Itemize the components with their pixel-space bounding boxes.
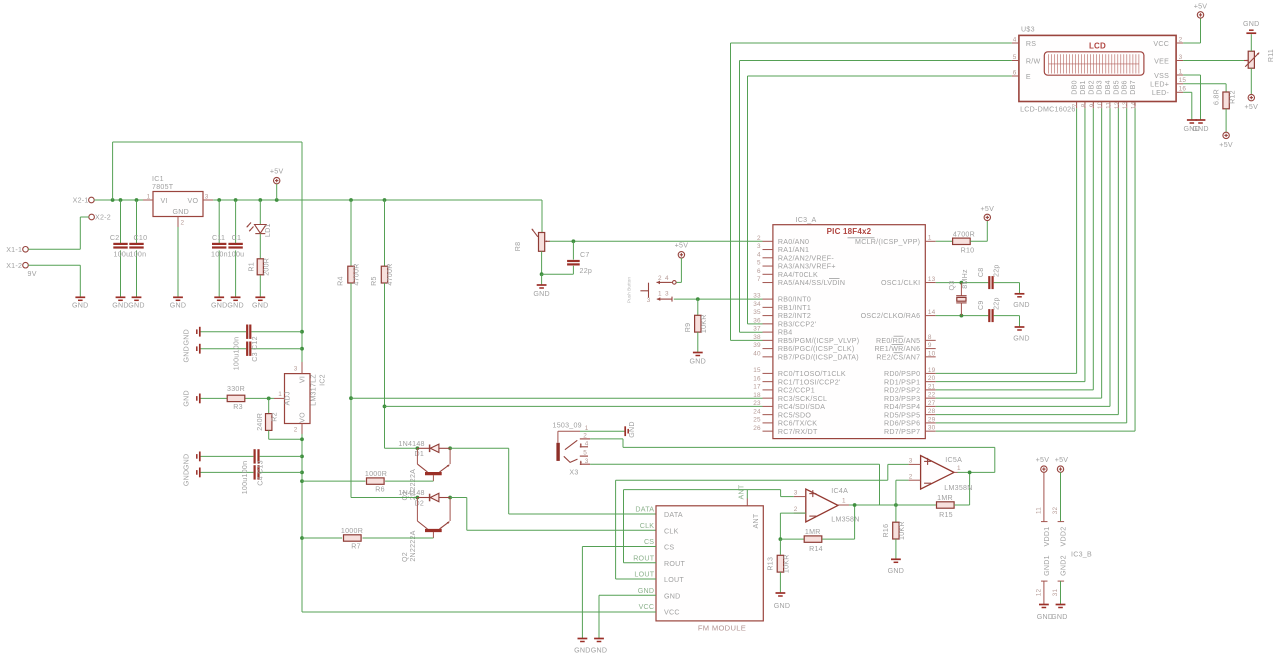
wire R8 wiper to RA0 bbox=[550, 239, 763, 243]
svg-text:11: 11 bbox=[1106, 102, 1113, 109]
svg-text:3: 3 bbox=[794, 490, 798, 497]
regulator IC1 7805T bbox=[143, 175, 213, 227]
wire C13 row bbox=[200, 471, 302, 473]
svg-text:RD1/PSP1: RD1/PSP1 bbox=[884, 378, 920, 386]
svg-text:RC6/TX/CK: RC6/TX/CK bbox=[778, 420, 817, 428]
svg-text:IC4A: IC4A bbox=[831, 487, 848, 495]
svg-text:19: 19 bbox=[928, 367, 936, 374]
wire LOUT to IC5A+ bbox=[616, 464, 909, 579]
svg-text:R12: R12 bbox=[1228, 90, 1236, 104]
svg-text:IC5A: IC5A bbox=[945, 456, 962, 464]
svg-text:7: 7 bbox=[757, 276, 761, 283]
svg-text:R2: R2 bbox=[270, 412, 278, 422]
svg-text:VI: VI bbox=[299, 376, 307, 383]
svg-text:RA5/AN4/SS/LVDIN: RA5/AN4/SS/LVDIN bbox=[778, 279, 845, 287]
svg-text:RE0/RD/AN5: RE0/RD/AN5 bbox=[876, 337, 920, 345]
svg-text:C11: C11 bbox=[212, 234, 225, 242]
wire jack pin2 to IC5A out bbox=[590, 439, 995, 473]
wire OSC1 row bbox=[936, 281, 989, 285]
svg-text:1: 1 bbox=[1179, 68, 1183, 75]
wire IC4A out row bbox=[849, 503, 937, 507]
svg-text:LCD-DMC16026: LCD-DMC16026 bbox=[1020, 105, 1075, 113]
svg-text:R15: R15 bbox=[939, 511, 953, 519]
wire R9 top bbox=[697, 299, 699, 315]
svg-text:RA0/AN0: RA0/AN0 bbox=[778, 238, 809, 246]
svg-text:RB7/PGD/(ICSP_DATA): RB7/PGD/(ICSP_DATA) bbox=[778, 353, 859, 361]
svg-text:DB2: DB2 bbox=[1087, 80, 1095, 95]
svg-text:1MR: 1MR bbox=[805, 528, 821, 536]
svg-text:RD6/PSP6: RD6/PSP6 bbox=[884, 420, 920, 428]
svg-text:RB4: RB4 bbox=[778, 329, 793, 337]
wire R3 row bbox=[200, 397, 274, 401]
svg-text:1N4148: 1N4148 bbox=[398, 440, 424, 448]
wire R8 bottom bbox=[540, 251, 544, 276]
svg-text:IC2: IC2 bbox=[319, 374, 327, 386]
svg-text:100n: 100n bbox=[130, 250, 147, 258]
svg-text:GND: GND bbox=[638, 587, 655, 595]
svg-text:DB6: DB6 bbox=[1121, 80, 1129, 95]
svg-text:10KR: 10KR bbox=[700, 314, 708, 333]
LCD module U$3 bbox=[1012, 25, 1186, 113]
svg-text:VCC: VCC bbox=[664, 609, 680, 617]
svg-text:10: 10 bbox=[928, 350, 936, 357]
svg-text:+5V: +5V bbox=[675, 242, 689, 250]
capacitor C12 100n bbox=[247, 342, 250, 356]
svg-text:2: 2 bbox=[658, 275, 662, 282]
svg-text:+5V: +5V bbox=[1245, 103, 1259, 111]
svg-text:ROUT: ROUT bbox=[664, 560, 686, 568]
svg-text:GND: GND bbox=[1013, 334, 1030, 342]
svg-text:17: 17 bbox=[753, 384, 761, 391]
svg-text:GND: GND bbox=[183, 454, 191, 471]
transistor Q1 2N2222A bbox=[401, 448, 450, 500]
op-amp IC4A LM358N bbox=[794, 487, 860, 524]
svg-text:VI: VI bbox=[161, 197, 168, 205]
wire LCD VSS to ground bbox=[1183, 75, 1200, 120]
ground C8 bbox=[1013, 294, 1030, 309]
svg-text:GND: GND bbox=[533, 290, 550, 298]
wire FM GND to ground bbox=[599, 595, 656, 638]
wire C10 stem bbox=[136, 200, 138, 297]
svg-text:1MR: 1MR bbox=[937, 494, 953, 502]
transistor Q2 2N2222A bbox=[401, 498, 450, 562]
connector pad X2-1 bbox=[73, 197, 95, 205]
svg-text:ANT: ANT bbox=[752, 513, 760, 528]
wire R16 to ground bbox=[895, 539, 897, 559]
ground FM bbox=[591, 639, 608, 655]
svg-text:Q2: Q2 bbox=[401, 552, 409, 562]
capacitor C2 100u bbox=[110, 234, 130, 258]
wire rail to R8 bbox=[541, 200, 543, 232]
resistor R16 10KR bbox=[882, 521, 906, 540]
svg-text:GND2: GND2 bbox=[1060, 555, 1068, 576]
svg-text:RC3/SCK/SCL: RC3/SCK/SCL bbox=[778, 395, 827, 403]
svg-text:VO: VO bbox=[188, 197, 199, 205]
ground C3 bbox=[183, 327, 200, 346]
svg-text:33: 33 bbox=[753, 293, 761, 300]
pin GND1 12 bbox=[1035, 555, 1051, 604]
svg-text:Q3: Q3 bbox=[948, 281, 956, 291]
svg-text:R10: R10 bbox=[961, 247, 975, 255]
svg-text:1: 1 bbox=[658, 291, 662, 298]
svg-text:9: 9 bbox=[928, 342, 932, 349]
svg-text:GND: GND bbox=[664, 592, 681, 600]
svg-text:1: 1 bbox=[278, 391, 282, 398]
regulator IC2 LM317LZ bbox=[274, 362, 327, 434]
wire DB7 net bbox=[936, 108, 1135, 431]
ground R3 bbox=[183, 390, 200, 407]
wire R11 top to gnd bbox=[1250, 34, 1252, 51]
svg-text:ANT: ANT bbox=[738, 484, 746, 499]
svg-text:4700R: 4700R bbox=[953, 230, 975, 238]
wire LD1 to R1 bbox=[259, 234, 261, 259]
wire C1 stem bbox=[235, 200, 237, 297]
svg-text:GND: GND bbox=[183, 390, 191, 407]
power +5V at rail bbox=[270, 168, 284, 200]
ground R13 bbox=[774, 593, 791, 610]
svg-text:RB6/PGC/(ICSP_CLK): RB6/PGC/(ICSP_CLK) bbox=[778, 345, 855, 353]
svg-text:RA1/AN1: RA1/AN1 bbox=[778, 246, 809, 254]
svg-text:2: 2 bbox=[757, 235, 761, 242]
svg-text:GND: GND bbox=[690, 357, 707, 365]
svg-text:2: 2 bbox=[181, 220, 185, 227]
wire jack sleeve to ground bbox=[580, 430, 625, 432]
svg-text:+5V: +5V bbox=[1036, 456, 1050, 464]
ground C4 bbox=[183, 452, 200, 471]
power +5V at LCD VCC bbox=[1194, 2, 1208, 18]
svg-text:3: 3 bbox=[585, 458, 589, 465]
microcontroller IC3_A PIC 18F4x2 bbox=[753, 216, 935, 439]
svg-text:2: 2 bbox=[583, 432, 587, 439]
wire C2 stem bbox=[120, 200, 122, 297]
trimmer R8 bbox=[514, 229, 550, 252]
svg-text:RE1/WR/AN6: RE1/WR/AN6 bbox=[874, 345, 920, 353]
svg-text:VSS: VSS bbox=[1154, 72, 1169, 80]
wire R15 to IC5A out bbox=[954, 472, 970, 505]
svg-text:3: 3 bbox=[205, 194, 209, 201]
svg-text:+5V: +5V bbox=[1194, 2, 1208, 10]
svg-text:RC4/SDI/SDA: RC4/SDI/SDA bbox=[778, 403, 825, 411]
wire R5 to SDA node bbox=[383, 283, 387, 448]
wire +5V to button bbox=[676, 258, 681, 282]
ground C1 bbox=[227, 297, 244, 309]
svg-text:2: 2 bbox=[294, 427, 298, 434]
svg-text:GND: GND bbox=[211, 301, 228, 309]
wire R1 to ground bbox=[259, 275, 261, 297]
ground C11 bbox=[211, 297, 228, 309]
svg-text:R3: R3 bbox=[233, 403, 243, 411]
ground jack bbox=[625, 421, 636, 438]
svg-text:RA4/T0CLK: RA4/T0CLK bbox=[778, 271, 818, 279]
svg-text:LD1: LD1 bbox=[264, 223, 272, 237]
svg-text:100u: 100u bbox=[228, 250, 245, 258]
svg-text:3: 3 bbox=[294, 366, 298, 373]
wire C4 row bbox=[200, 455, 302, 457]
ground R11 (inverted) bbox=[1243, 20, 1260, 33]
wire 9V feed to IC2 VI bbox=[113, 142, 302, 362]
svg-text:RD0/PSP0: RD0/PSP0 bbox=[884, 370, 920, 378]
svg-text:100u100n: 100u100n bbox=[232, 337, 240, 371]
svg-text:GND: GND bbox=[1051, 613, 1068, 621]
svg-text:X1-1: X1-1 bbox=[6, 246, 22, 254]
svg-text:16: 16 bbox=[753, 375, 761, 382]
svg-text:GND: GND bbox=[173, 208, 190, 216]
svg-text:32: 32 bbox=[1052, 507, 1059, 515]
ground X1-2 bbox=[72, 297, 89, 309]
svg-text:3: 3 bbox=[1179, 54, 1183, 61]
svg-text:LM358N: LM358N bbox=[831, 516, 859, 524]
capacitor C4 100u bbox=[255, 449, 259, 463]
wire DB1 net bbox=[936, 108, 1085, 381]
svg-text:X2-1: X2-1 bbox=[73, 197, 89, 205]
svg-text:OSC1/CLKI: OSC1/CLKI bbox=[881, 279, 920, 287]
wire SCL to D2 row bbox=[351, 496, 452, 500]
wire DB2 net bbox=[936, 108, 1094, 390]
wire jack pin3 to IC4A out bbox=[590, 464, 879, 505]
svg-text:13: 13 bbox=[1122, 101, 1129, 109]
svg-text:R1: R1 bbox=[247, 262, 255, 272]
svg-text:C4 C13: C4 C13 bbox=[257, 460, 265, 486]
pin VDD2 32 bbox=[1052, 472, 1067, 546]
svg-text:C10: C10 bbox=[134, 234, 148, 242]
svg-text:22: 22 bbox=[928, 392, 936, 399]
svg-text:240R: 240R bbox=[256, 413, 264, 431]
svg-text:U$3: U$3 bbox=[1021, 25, 1035, 33]
diode D1 1N4148 bbox=[398, 440, 450, 458]
svg-text:R5: R5 bbox=[370, 276, 378, 286]
svg-text:DB3: DB3 bbox=[1096, 80, 1104, 95]
wire R13 to ground bbox=[779, 572, 781, 592]
capacitor C9 22p bbox=[977, 297, 1000, 322]
svg-text:DB0: DB0 bbox=[1071, 80, 1079, 95]
svg-text:C8: C8 bbox=[977, 268, 985, 278]
wire CLK net bbox=[450, 498, 656, 531]
capacitor C3 100u bbox=[247, 325, 250, 339]
svg-text:34: 34 bbox=[753, 301, 761, 308]
wire R12 to +5V bbox=[1225, 109, 1227, 132]
crystal Q3 8MHz bbox=[948, 269, 969, 316]
svg-text:RA3/AN3/VREF+: RA3/AN3/VREF+ bbox=[778, 263, 836, 271]
wire button to RB0 bbox=[674, 297, 763, 301]
svg-text:31: 31 bbox=[1052, 589, 1059, 597]
trimmer R11 bbox=[1244, 49, 1275, 68]
resistor R10 4700R bbox=[953, 230, 975, 254]
svg-text:LOUT: LOUT bbox=[634, 571, 654, 579]
power +5V at R12 bbox=[1219, 132, 1233, 149]
svg-text:GND: GND bbox=[72, 301, 89, 309]
svg-text:+5V: +5V bbox=[270, 168, 284, 176]
svg-text:1: 1 bbox=[957, 465, 961, 472]
svg-text:3: 3 bbox=[647, 297, 651, 304]
svg-text:26: 26 bbox=[753, 425, 761, 432]
wire R/W net bbox=[740, 61, 1012, 333]
op-amp IC5A LM358N bbox=[909, 456, 973, 492]
svg-text:2: 2 bbox=[909, 473, 913, 480]
svg-text:4700R: 4700R bbox=[353, 263, 361, 285]
svg-text:13: 13 bbox=[928, 276, 936, 283]
svg-text:40: 40 bbox=[753, 350, 761, 357]
svg-text:VDD2: VDD2 bbox=[1060, 527, 1068, 547]
svg-text:C7: C7 bbox=[580, 251, 590, 259]
wire R9 to ground bbox=[697, 332, 699, 352]
svg-text:1N4148: 1N4148 bbox=[398, 489, 424, 497]
svg-text:24: 24 bbox=[753, 408, 761, 415]
resistor R2 240R bbox=[256, 412, 279, 431]
svg-text:200R: 200R bbox=[262, 258, 270, 276]
svg-text:4: 4 bbox=[757, 251, 761, 258]
svg-text:+5V: +5V bbox=[1219, 141, 1233, 149]
resistor R9 10KR bbox=[684, 314, 708, 333]
wire R10 to +5V bbox=[970, 221, 987, 242]
ground R9 bbox=[690, 353, 707, 366]
svg-text:R/W: R/W bbox=[1026, 57, 1041, 65]
svg-text:C9: C9 bbox=[977, 300, 985, 310]
resistor R3 330R bbox=[227, 385, 245, 411]
svg-text:6: 6 bbox=[757, 268, 761, 275]
svg-text:GND: GND bbox=[170, 301, 187, 309]
svg-text:7805T: 7805T bbox=[152, 183, 174, 191]
svg-text:GND: GND bbox=[252, 301, 269, 309]
capacitor C10 100n bbox=[129, 234, 147, 258]
svg-text:1: 1 bbox=[928, 235, 932, 242]
svg-text:DATA: DATA bbox=[635, 506, 654, 514]
connector pad X2-2 bbox=[89, 214, 111, 222]
wire R8 gnd stem bbox=[541, 274, 543, 284]
svg-text:21: 21 bbox=[928, 383, 936, 390]
label C3 C12 values bbox=[232, 336, 258, 370]
wire VCC 3V3 net bbox=[302, 611, 656, 613]
svg-text:R13: R13 bbox=[767, 557, 775, 571]
svg-text:14: 14 bbox=[928, 309, 936, 316]
svg-text:IC1: IC1 bbox=[152, 175, 164, 183]
svg-text:6.8R: 6.8R bbox=[1212, 89, 1220, 105]
svg-text:PIC 18F4x2: PIC 18F4x2 bbox=[827, 227, 872, 236]
wire R4 stem top bbox=[350, 200, 352, 266]
svg-text:1000R: 1000R bbox=[365, 470, 387, 478]
node C12 junction bbox=[300, 347, 304, 351]
resistor R6 1000R bbox=[365, 470, 387, 493]
power +5V VDD2 bbox=[1055, 456, 1069, 472]
connector pad X1-1 bbox=[6, 246, 28, 254]
svg-text:C3 C12: C3 C12 bbox=[251, 336, 259, 362]
svg-text:10KR: 10KR bbox=[898, 521, 906, 540]
svg-text:1: 1 bbox=[842, 497, 846, 504]
svg-text:RD4/PSP4: RD4/PSP4 bbox=[884, 403, 920, 411]
wire DB6 net bbox=[936, 108, 1127, 423]
resistor R1 200R bbox=[247, 258, 270, 276]
connector pad X1-2 bbox=[6, 262, 36, 278]
svg-text:C2: C2 bbox=[110, 234, 120, 242]
svg-text:DB1: DB1 bbox=[1079, 80, 1087, 95]
svg-text:RC0/T1OSO/T1CLK: RC0/T1OSO/T1CLK bbox=[778, 370, 846, 378]
svg-text:RB5/PGM/(ICSP_VLVP): RB5/PGM/(ICSP_VLVP) bbox=[778, 337, 860, 345]
svg-text:8: 8 bbox=[928, 334, 932, 341]
svg-text:100u100n: 100u100n bbox=[241, 461, 249, 495]
wire LCD VCC to +5V bbox=[1183, 18, 1200, 43]
svg-text:3: 3 bbox=[909, 458, 913, 465]
wire R16 stem bbox=[895, 505, 897, 522]
svg-text:5: 5 bbox=[757, 260, 761, 267]
resistor R14 1MR bbox=[804, 528, 823, 553]
svg-text:CLK: CLK bbox=[640, 522, 655, 530]
svg-text:E: E bbox=[1026, 73, 1031, 81]
svg-text:RD3/PSP3: RD3/PSP3 bbox=[884, 395, 920, 403]
wire SCL net (RC3) bbox=[351, 397, 763, 399]
ground VSS bbox=[1192, 120, 1209, 133]
svg-text:D2: D2 bbox=[415, 499, 425, 507]
wire LCD VEE to R11 wiper bbox=[1183, 60, 1245, 62]
svg-text:9: 9 bbox=[1089, 103, 1096, 107]
svg-text:GND: GND bbox=[591, 646, 608, 654]
svg-text:R11: R11 bbox=[1267, 49, 1275, 62]
svg-text:GND: GND bbox=[183, 470, 191, 487]
power +5V at R11 bbox=[1245, 94, 1259, 111]
svg-text:39: 39 bbox=[753, 342, 761, 349]
power +5V at R10 bbox=[981, 205, 995, 221]
svg-text:11: 11 bbox=[1035, 507, 1042, 514]
svg-text:OSC2/CLKO/RA6: OSC2/CLKO/RA6 bbox=[861, 312, 921, 320]
ground C13 bbox=[183, 468, 200, 487]
svg-text:GND: GND bbox=[1243, 20, 1260, 28]
svg-text:4700R: 4700R bbox=[386, 263, 394, 285]
svg-text:29: 29 bbox=[928, 416, 936, 423]
svg-text:RB1/INT1: RB1/INT1 bbox=[778, 304, 811, 312]
svg-text:RD2/PSP2: RD2/PSP2 bbox=[884, 387, 920, 395]
svg-text:330R: 330R bbox=[227, 385, 245, 393]
svg-text:8MHz: 8MHz bbox=[961, 269, 969, 289]
svg-text:LED-: LED- bbox=[1152, 89, 1170, 97]
resistor R4 4700R bbox=[337, 263, 361, 285]
resistor R5 4700R bbox=[370, 263, 394, 285]
svg-text:LM317LZ: LM317LZ bbox=[310, 374, 318, 406]
svg-text:37: 37 bbox=[753, 326, 761, 333]
audio jack X3 1503_09 bbox=[553, 422, 591, 477]
svg-text:100n: 100n bbox=[211, 250, 228, 258]
svg-text:IC3_B: IC3_B bbox=[1071, 550, 1092, 558]
ground C9 bbox=[1013, 327, 1030, 342]
wire R11 bottom to +5V bbox=[1250, 68, 1252, 94]
pin GND2 31 bbox=[1052, 555, 1067, 604]
wire IC1 GND pin to ground bbox=[177, 227, 179, 297]
svg-text:2: 2 bbox=[1179, 36, 1183, 43]
svg-text:4: 4 bbox=[585, 441, 589, 448]
svg-text:1503_09: 1503_09 bbox=[553, 422, 582, 430]
svg-text:X2-2: X2-2 bbox=[95, 214, 111, 222]
svg-text:GND: GND bbox=[1184, 125, 1201, 133]
svg-text:RD7/PSP7: RD7/PSP7 bbox=[884, 428, 920, 436]
svg-text:CS: CS bbox=[644, 538, 654, 546]
resistor R13 10KR bbox=[767, 554, 791, 573]
wire +9V rail bbox=[94, 198, 143, 202]
wire DATA net bbox=[450, 448, 656, 514]
svg-text:8: 8 bbox=[1080, 103, 1087, 107]
wire 3V3 vertical bbox=[300, 434, 304, 612]
svg-text:10KR: 10KR bbox=[783, 554, 791, 573]
svg-text:RC1/T1OSI/CCP2': RC1/T1OSI/CCP2' bbox=[778, 378, 841, 386]
svg-text:25: 25 bbox=[753, 417, 761, 424]
svg-text:22p: 22p bbox=[993, 297, 1001, 310]
wire C12 row bbox=[200, 348, 302, 350]
svg-text:6: 6 bbox=[1013, 69, 1017, 76]
svg-text:GND: GND bbox=[1013, 301, 1030, 309]
svg-text:RB3/CCP2': RB3/CCP2' bbox=[778, 320, 816, 328]
svg-text:15: 15 bbox=[753, 367, 761, 374]
wire R6 row bbox=[302, 480, 433, 482]
wire +5V rail bbox=[213, 198, 542, 202]
ground GND2 bbox=[1051, 605, 1068, 621]
wire C9 to ground bbox=[994, 316, 1020, 327]
svg-text:CS: CS bbox=[664, 544, 674, 552]
